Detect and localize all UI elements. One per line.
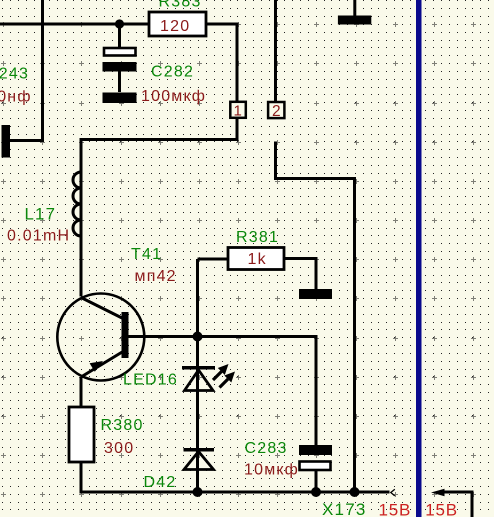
- svg-text:мп42: мп42: [135, 268, 177, 285]
- svg-text:2: 2: [272, 103, 281, 120]
- svg-text:10мкф: 10мкф: [244, 462, 299, 479]
- svg-text:100нф: 100нф: [0, 89, 32, 106]
- svg-text:1k: 1k: [248, 251, 267, 268]
- svg-text:C282: C282: [151, 64, 194, 81]
- svg-text:R381: R381: [236, 229, 279, 246]
- svg-text:100мкф: 100мкф: [141, 88, 206, 105]
- svg-text:C283: C283: [245, 440, 288, 457]
- svg-text:D42: D42: [144, 474, 177, 491]
- svg-text:R380: R380: [101, 417, 144, 434]
- svg-text:L17: L17: [25, 205, 57, 224]
- svg-text:1: 1: [234, 103, 242, 120]
- svg-text:T41: T41: [131, 246, 162, 263]
- svg-text:0.01mH: 0.01mH: [7, 228, 70, 245]
- svg-text:15В: 15В: [425, 501, 458, 517]
- svg-text:120: 120: [160, 18, 190, 35]
- svg-text:15В: 15В: [379, 501, 412, 517]
- svg-text:300: 300: [104, 440, 134, 457]
- svg-text:X173: X173: [322, 500, 367, 517]
- svg-text:R383: R383: [159, 0, 202, 11]
- svg-text:LED16: LED16: [123, 372, 178, 389]
- svg-text:C243: C243: [0, 66, 29, 83]
